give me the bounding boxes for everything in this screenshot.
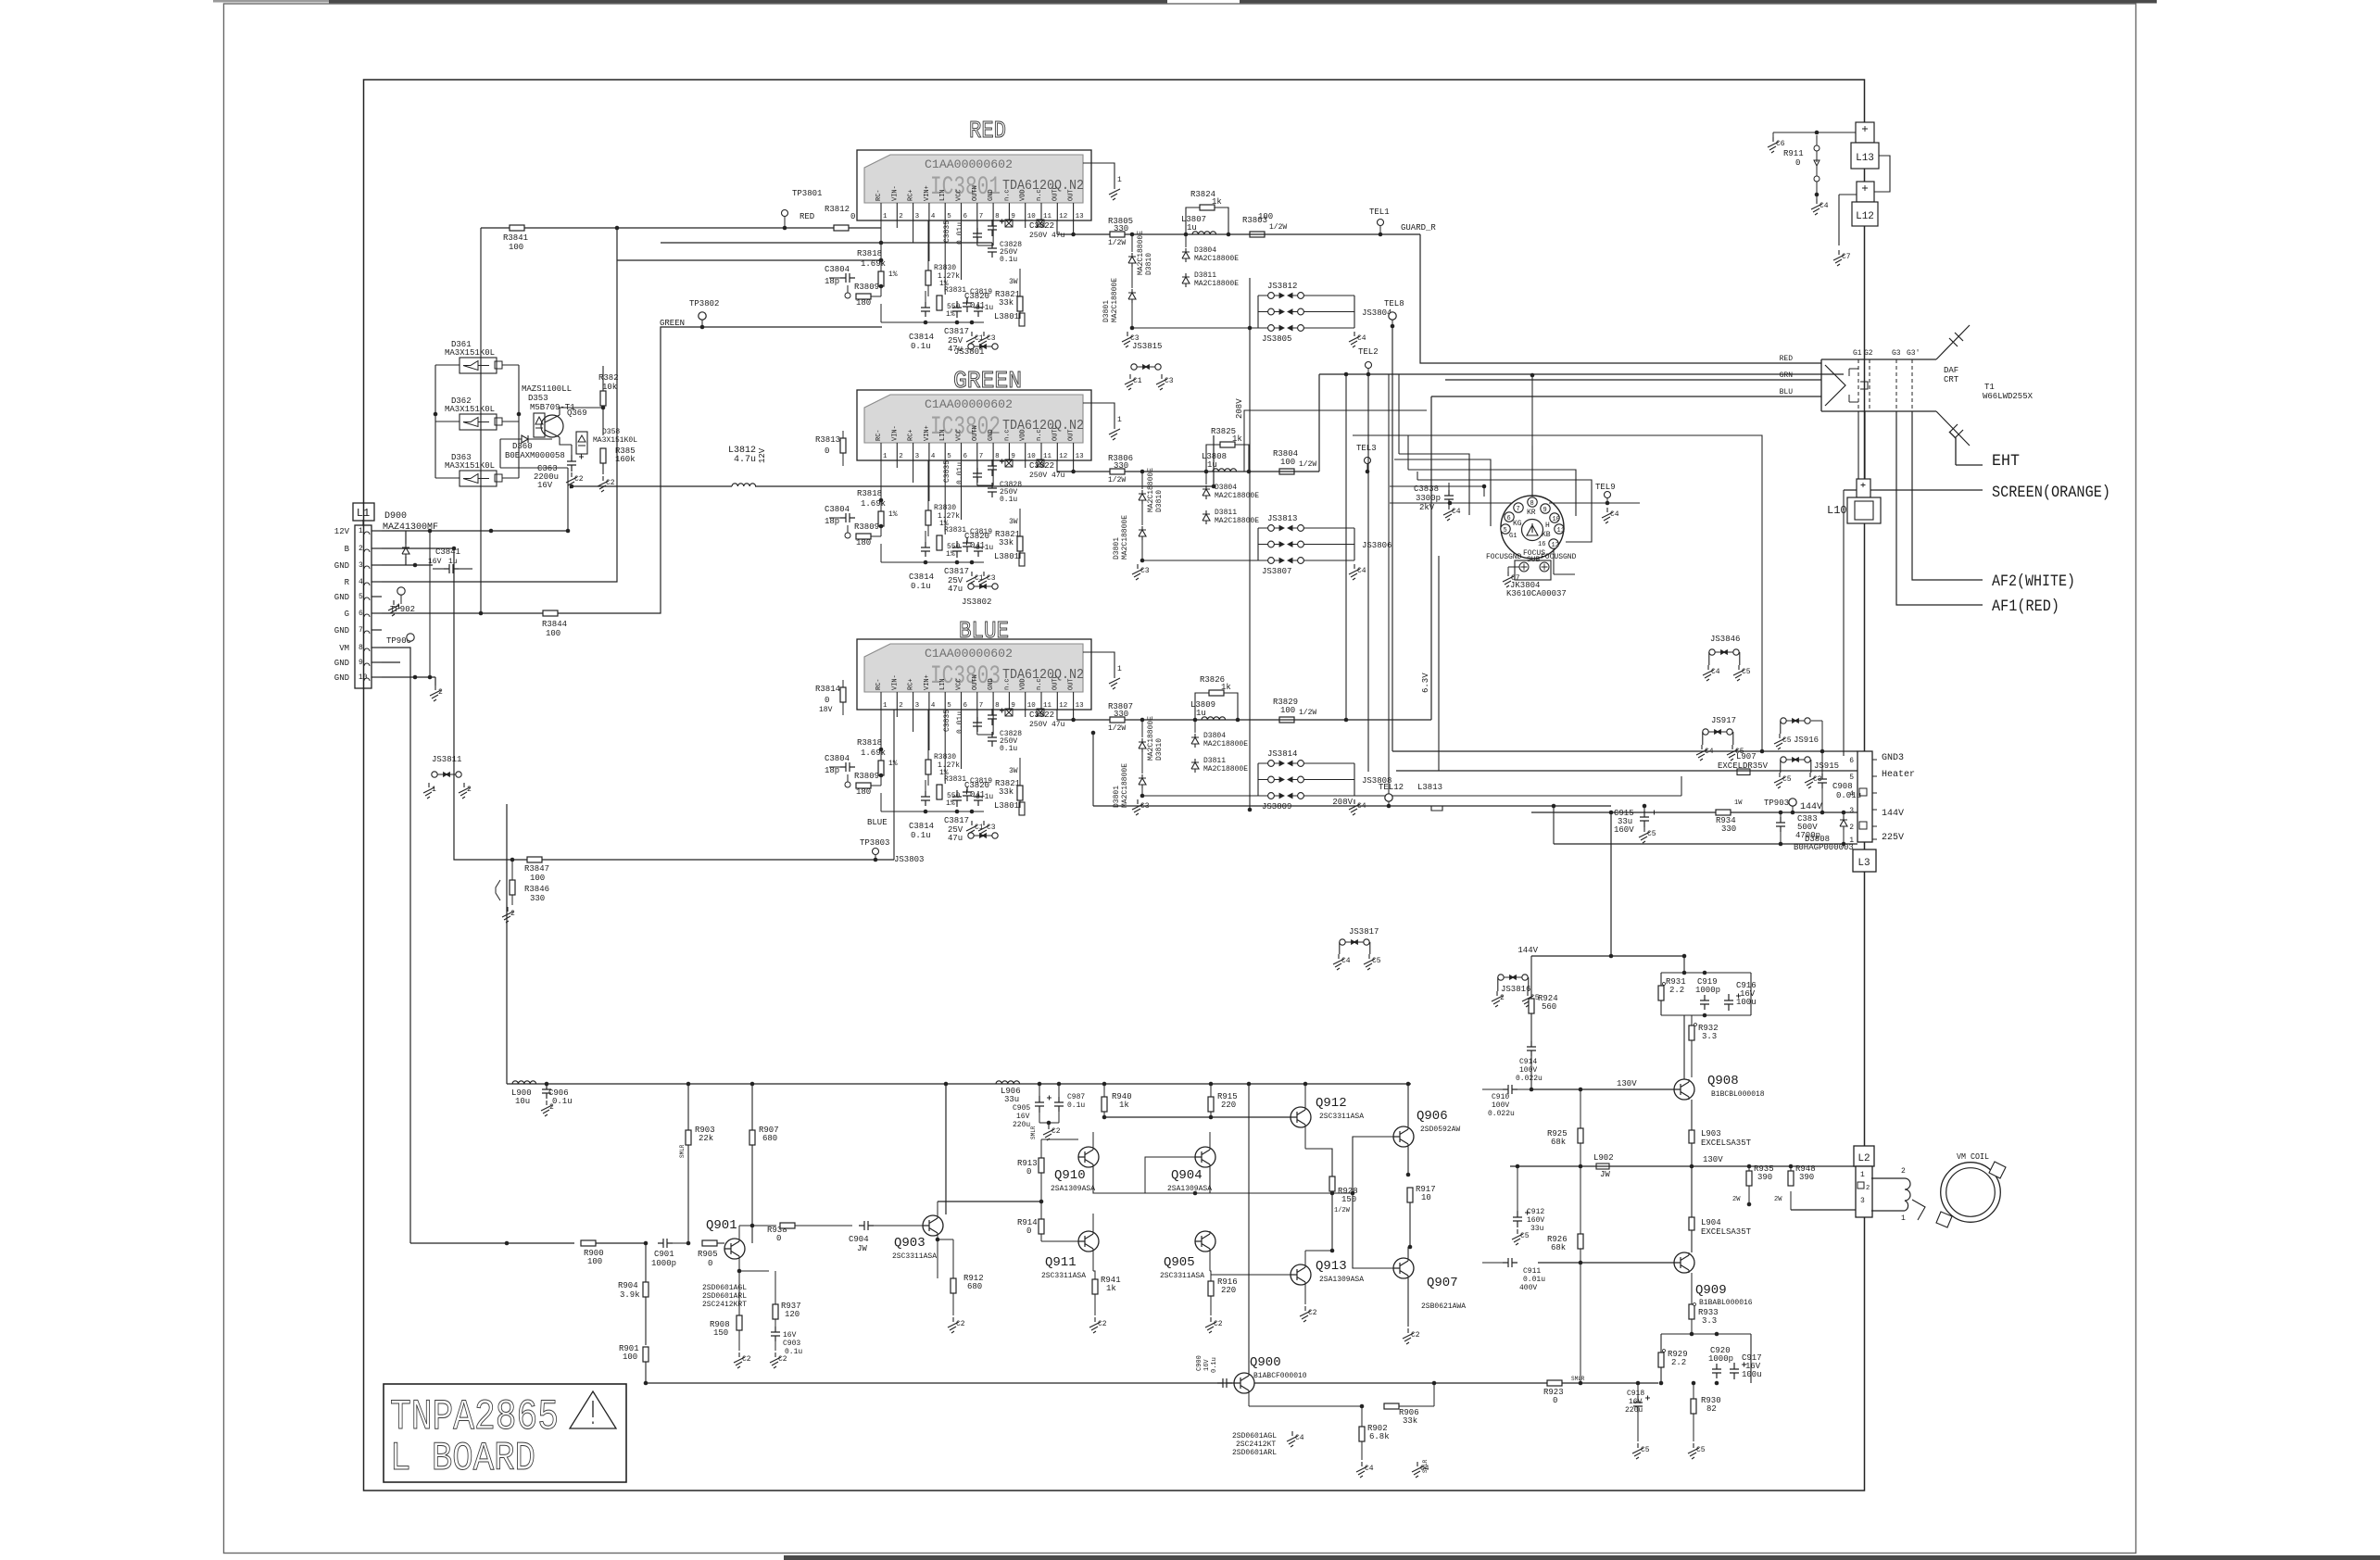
svg-text:BLUE: BLUE [867, 818, 888, 827]
jumper grid B [1268, 761, 1275, 767]
svg-text:C3820: C3820 [964, 781, 989, 790]
svg-text:2SD0592AW: 2SD0592AW [1420, 1126, 1460, 1134]
svg-text:33u: 33u [1004, 1095, 1019, 1104]
wire 144V vertical [1610, 806, 1612, 812]
svg-text:R911: R911 [1783, 149, 1804, 158]
svg-text:0.1u: 0.1u [1211, 1357, 1218, 1373]
capacitor C382x 47u R [988, 220, 997, 236]
inductor L12 [1857, 182, 1874, 202]
svg-text:D900: D900 [384, 511, 407, 522]
svg-text:0.01u: 0.01u [1523, 1276, 1545, 1284]
wire VM to bottom [382, 648, 410, 1243]
svg-text:330: 330 [1721, 824, 1736, 834]
svg-text:OUT: OUT [1068, 678, 1076, 690]
svg-text:G: G [345, 610, 349, 619]
svg-text:AF2(WHITE): AF2(WHITE) [1992, 572, 2075, 591]
CRT socket pin 11 [1555, 524, 1564, 534]
svg-text:1: 1 [1117, 416, 1122, 424]
wire Q908 base row [1531, 1088, 1674, 1090]
svg-text:3: 3 [359, 561, 363, 570]
svg-text:RC-: RC- [875, 189, 883, 201]
svg-text:GND: GND [334, 673, 349, 683]
wire bus left vert [506, 804, 508, 1084]
svg-text:VCC: VCC [956, 429, 963, 441]
wire Q903 collector [937, 1201, 938, 1215]
wire Q908 emitter [1691, 1099, 1693, 1101]
svg-text:250V 47u: 250V 47u [1029, 232, 1065, 240]
transistor Q903 [923, 1215, 943, 1236]
svg-text:3: 3 [1849, 807, 1854, 815]
svg-text:T1: T1 [1984, 383, 1995, 392]
wire output row G [1056, 460, 1058, 472]
svg-text:G3': G3' [1907, 349, 1920, 358]
wire Q912 base row [1104, 1116, 1291, 1118]
svg-text:C2: C2 [574, 475, 584, 484]
page border [224, 4, 2136, 1554]
svg-text:KB: KB [1542, 531, 1551, 539]
svg-text:C5: C5 [1647, 830, 1656, 838]
svg-text:Q911: Q911 [1045, 1255, 1077, 1270]
svg-text:TEL12: TEL12 [1379, 783, 1404, 792]
wire Q913 base row [1211, 1274, 1291, 1276]
ground L1 pin10 [430, 686, 441, 701]
svg-text:JS3815: JS3815 [1132, 342, 1162, 351]
svg-text:R3818: R3818 [857, 738, 882, 748]
wire socket pin8 up [1531, 446, 1533, 497]
ground C1 B [966, 821, 977, 837]
svg-text:10: 10 [359, 673, 368, 682]
svg-text:0: 0 [776, 1234, 781, 1243]
svg-text:OUTN: OUTN [972, 674, 979, 690]
svg-text:JS3816: JS3816 [1501, 985, 1530, 994]
svg-text:1/2W: 1/2W [1299, 709, 1316, 717]
wire Q913 collector [1304, 1251, 1306, 1264]
ground under R902 [1356, 1462, 1367, 1478]
svg-text:C900: C900 [1196, 1355, 1203, 1371]
label EHT [1949, 432, 1983, 465]
svg-text:H: H [1545, 522, 1550, 530]
svg-text:D3811: D3811 [1215, 509, 1237, 517]
scan artifact top edge [329, 0, 1167, 4]
svg-text:C2: C2 [1214, 1320, 1223, 1328]
svg-text:MA3X151K0L: MA3X151K0L [593, 436, 637, 445]
svg-text:G2: G2 [1864, 349, 1873, 358]
svg-text:n.c: n.c [1036, 429, 1043, 441]
svg-text:n.c: n.c [1003, 189, 1011, 201]
svg-text:2SC2412KRT: 2SC2412KRT [702, 1301, 747, 1309]
warning triangle [570, 1391, 616, 1428]
IC IC3803 body [864, 644, 1083, 692]
svg-text:0.1u: 0.1u [911, 342, 931, 351]
svg-text:9: 9 [359, 659, 363, 667]
svg-text:R905: R905 [698, 1250, 718, 1259]
svg-text:225V: 225V [1882, 833, 1904, 843]
wire Q903 top [945, 1084, 947, 1214]
connector L2 label box [1854, 1146, 1874, 1166]
svg-text:120: 120 [785, 1310, 800, 1319]
svg-text:C918: C918 [1627, 1390, 1644, 1398]
wire Q908 collector up [1683, 1015, 1685, 1079]
svg-text:2W: 2W [1732, 1196, 1741, 1203]
wire G1 down [1857, 411, 1859, 490]
svg-text:C1AA00000602: C1AA00000602 [925, 397, 1013, 411]
svg-text:2SC3311ASA: 2SC3311ASA [1319, 1113, 1364, 1121]
svg-text:OUTC: OUTC [1051, 425, 1059, 441]
ground under C918 [1632, 1443, 1643, 1459]
jumper grid R [1268, 293, 1275, 299]
svg-text:130V: 130V [1617, 1079, 1637, 1088]
svg-text:C4: C4 [1711, 668, 1720, 676]
svg-text:C3814: C3814 [909, 822, 934, 831]
CRT electrode dashes [1857, 359, 1859, 411]
svg-text:68k: 68k [1551, 1243, 1566, 1252]
svg-text:2: 2 [359, 545, 363, 553]
svg-text:JS916: JS916 [1794, 736, 1819, 745]
svg-text:KG: KG [1513, 520, 1522, 528]
wire G to green input [382, 612, 543, 614]
wire blue input [875, 859, 894, 861]
svg-text:SMLR: SMLR [1571, 1376, 1585, 1382]
svg-text:2.2: 2.2 [1669, 986, 1684, 995]
svg-text:6.3V: 6.3V [1421, 673, 1430, 693]
svg-text:4: 4 [931, 213, 936, 220]
transistor Q910 [1078, 1147, 1099, 1167]
svg-text:VIN+: VIN+ [924, 674, 931, 690]
transistor Q901 [724, 1239, 745, 1259]
svg-text:R3809: R3809 [854, 283, 879, 292]
svg-text:0: 0 [825, 447, 829, 456]
svg-text:250V 47u: 250V 47u [1029, 472, 1065, 480]
svg-text:5: 5 [947, 453, 951, 460]
VM coil winding [1871, 1178, 1910, 1211]
svg-text:2SA1309ASA: 2SA1309ASA [1319, 1276, 1364, 1284]
svg-text:R3812: R3812 [825, 205, 850, 214]
svg-text:BLU: BLU [1780, 388, 1794, 396]
svg-text:6: 6 [359, 610, 363, 618]
wire Q907 base [1353, 1193, 1393, 1268]
svg-text:JS3814: JS3814 [1267, 749, 1297, 759]
svg-text:0.1u: 0.1u [1000, 256, 1017, 264]
wire Q910/Q904 emitters [1093, 1167, 1210, 1193]
svg-text:C5: C5 [1641, 1446, 1650, 1454]
svg-text:L BOARD: L BOARD [390, 1436, 535, 1482]
svg-text:VCC: VCC [956, 678, 963, 690]
svg-text:160k: 160k [615, 455, 636, 464]
svg-text:3: 3 [915, 213, 920, 220]
svg-text:TEL9: TEL9 [1595, 483, 1616, 492]
svg-text:C911: C911 [1523, 1267, 1541, 1276]
wires socket left risers [1399, 374, 1417, 480]
wire C910 left [1408, 1089, 1482, 1126]
svg-text:GREEN: GREEN [953, 367, 1022, 395]
svg-text:0.01u: 0.01u [956, 462, 964, 484]
wire emitters to L2 row [1410, 1166, 1510, 1175]
svg-text:8: 8 [995, 213, 1000, 220]
svg-text:VIN+: VIN+ [924, 185, 931, 201]
svg-text:150: 150 [713, 1328, 728, 1338]
svg-text:0.022u: 0.022u [1488, 1110, 1515, 1118]
wire socket pin11 row [1417, 480, 1592, 542]
ground C1 R [966, 332, 977, 347]
svg-text:JS3802: JS3802 [962, 598, 991, 607]
wire Q901 collector [738, 1226, 740, 1241]
wire Q910 collector [1092, 1132, 1094, 1147]
wire Q911 emitter [1092, 1252, 1094, 1271]
pin x-boxes G [1005, 459, 1013, 467]
grounds under Q901 [734, 1352, 745, 1368]
svg-text:C3804: C3804 [825, 754, 850, 763]
jumper JS380x G [968, 584, 974, 589]
wire mid row [1041, 1192, 1078, 1194]
svg-text:C3817: C3817 [944, 327, 969, 336]
ground C7 [1833, 250, 1845, 266]
svg-text:16V: 16V [537, 481, 553, 490]
CRT socket pin 9 [1541, 504, 1550, 513]
svg-text:RC+: RC+ [908, 429, 915, 441]
ground under R916 [1205, 1317, 1216, 1333]
svg-text:0.1u: 0.1u [1000, 745, 1017, 753]
svg-text:2: 2 [899, 453, 903, 460]
wire Q903 emitter [937, 1236, 938, 1278]
svg-text:C3: C3 [1140, 567, 1150, 575]
svg-text:1W: 1W [1734, 799, 1743, 807]
wire Q905 base [1145, 1193, 1195, 1241]
svg-text:33u: 33u [1530, 1225, 1544, 1233]
svg-text:DAF: DAF [1944, 366, 1958, 375]
svg-text:TP903: TP903 [1764, 799, 1789, 808]
svg-text:2SC3311ASA: 2SC3311ASA [1041, 1272, 1086, 1280]
ground under C905 [1043, 1125, 1054, 1140]
wire vm input row [410, 1242, 574, 1244]
svg-text:2SD0601ARL: 2SD0601ARL [702, 1292, 747, 1301]
diode D381x column R [1130, 233, 1135, 237]
svg-text:MA2C18800E: MA2C18800E [1215, 517, 1259, 525]
wire socket pin5 row [1394, 459, 1491, 526]
capacitor C38xx 250V 0.1u R [988, 243, 997, 258]
wire TEL8 row [1391, 326, 1393, 751]
svg-text:G3: G3 [1892, 349, 1901, 358]
svg-text:5: 5 [947, 702, 951, 710]
svg-text:R3813: R3813 [815, 435, 840, 445]
CRT socket pin 5 [1501, 524, 1510, 534]
wire 12V rail verticals [500, 439, 568, 531]
svg-text:C4: C4 [1452, 508, 1461, 516]
capacitor C38xx 250V 0.1u G [988, 483, 997, 497]
svg-text:33k: 33k [999, 787, 1014, 797]
svg-text:2: 2 [899, 213, 903, 220]
svg-text:250V 47u: 250V 47u [1029, 721, 1065, 729]
ground C3 R [978, 332, 989, 347]
svg-text:1: 1 [432, 786, 436, 794]
svg-text:RED: RED [1780, 355, 1794, 363]
wire pin stubs B [896, 710, 898, 717]
inductor L900 [512, 1081, 536, 1084]
svg-text:2SD0601AGL: 2SD0601AGL [1232, 1432, 1277, 1440]
svg-text:MA2C18800E: MA2C18800E [1194, 255, 1239, 263]
svg-text:L3801: L3801 [994, 552, 1019, 561]
svg-text:13: 13 [1076, 702, 1085, 710]
wire 12V rail up [1213, 435, 1215, 486]
capacitor C6 gnd [1768, 137, 1779, 153]
svg-text:1/2W: 1/2W [1299, 460, 1316, 469]
svg-text:MA2C18800E: MA2C18800E [1121, 763, 1129, 808]
ground under R930 [1688, 1443, 1699, 1459]
svg-text:47u: 47u [948, 585, 963, 594]
wire R903 down [687, 1145, 689, 1243]
svg-text:C901: C901 [654, 1250, 674, 1259]
wire Q911 base [1077, 1240, 1079, 1242]
svg-text:18V: 18V [819, 706, 833, 714]
svg-text:5: 5 [1849, 774, 1854, 782]
svg-text:1/2W: 1/2W [1269, 223, 1287, 232]
svg-text:1: 1 [883, 453, 888, 460]
svg-text:C1AA00000602: C1AA00000602 [925, 157, 1013, 171]
svg-text:C4: C4 [1295, 1434, 1304, 1442]
svg-text:C910: C910 [1492, 1093, 1509, 1101]
svg-text:130V: 130V [1703, 1155, 1723, 1164]
wire L13 to L12 [1874, 156, 1890, 192]
wire blue 208V link [1092, 733, 1094, 806]
svg-text:144V: 144V [1517, 946, 1538, 955]
svg-text:16V: 16V [1203, 1359, 1211, 1371]
capacitor C382x 47u G [988, 459, 997, 476]
svg-text:1/2W: 1/2W [1108, 724, 1126, 733]
svg-text:0: 0 [1795, 158, 1800, 168]
wire Q906 collector [1407, 1084, 1409, 1126]
wire Q913 emitter [1304, 1285, 1306, 1304]
svg-text:VDD: VDD [1020, 429, 1027, 441]
wire Q907 emitter [1407, 1247, 1409, 1258]
wire Q900 emitter [1248, 1393, 1250, 1406]
diode D3811 G [1203, 510, 1210, 524]
wire Q909 down [1691, 1333, 1693, 1335]
diode D381x column B [1140, 718, 1145, 723]
svg-text:2: 2 [438, 688, 443, 697]
ground C1 G [966, 572, 977, 587]
svg-text:RED: RED [969, 117, 1006, 145]
svg-text:208V: 208V [1332, 798, 1353, 807]
svg-text:D3810: D3810 [1145, 253, 1153, 275]
svg-text:L3801: L3801 [994, 801, 1019, 811]
wire 144V row [1531, 811, 1857, 813]
svg-text:JS3804: JS3804 [1362, 308, 1391, 318]
svg-text:C4: C4 [1610, 510, 1619, 519]
svg-text:Q907: Q907 [1427, 1276, 1458, 1290]
svg-text:D3810: D3810 [1155, 738, 1164, 761]
transistor Q900 [1234, 1373, 1254, 1393]
capacitor C3819 B [963, 786, 972, 801]
svg-text:JS3803: JS3803 [894, 855, 924, 864]
wire R to red input [382, 228, 617, 582]
transistor Q906 [1393, 1126, 1414, 1147]
ground under Q907 [1403, 1328, 1414, 1344]
svg-text:10: 10 [1027, 702, 1037, 710]
svg-text:JS3809: JS3809 [1262, 802, 1291, 811]
svg-text:C3835: C3835 [943, 220, 951, 243]
svg-text:12: 12 [1552, 542, 1559, 549]
svg-text:16V: 16V [783, 1331, 797, 1340]
svg-text:4: 4 [931, 453, 936, 460]
wire socket pin12 down [1554, 549, 1575, 574]
svg-text:VCC: VCC [956, 189, 963, 201]
transistor Q912 [1291, 1107, 1311, 1127]
svg-text:D3804: D3804 [1194, 246, 1216, 255]
svg-text:12V: 12V [758, 447, 767, 463]
svg-text:L1: L1 [357, 507, 370, 520]
svg-text:B: B [345, 545, 350, 554]
wire GRN to gun [1445, 379, 1821, 381]
wire af wires vert [1780, 463, 1782, 490]
svg-text:220: 220 [1221, 1286, 1236, 1295]
wire Q908 collector [1683, 1015, 1685, 1079]
svg-text:0.1: 0.1 [970, 301, 985, 310]
svg-text:400V: 400V [1519, 1284, 1537, 1292]
svg-text:7: 7 [979, 453, 984, 460]
wire pin9 gnd [382, 661, 400, 663]
wire green out vert link [431, 228, 433, 565]
svg-text:7: 7 [979, 213, 984, 220]
svg-text:12: 12 [1059, 213, 1067, 220]
svg-text:2SD0601AGL: 2SD0601AGL [702, 1284, 747, 1292]
svg-text:100: 100 [509, 243, 523, 252]
svg-text:C2: C2 [1308, 1309, 1317, 1317]
title block box [384, 1384, 626, 1482]
wire output row B [1056, 710, 1058, 720]
svg-text:220u: 220u [1625, 1406, 1643, 1415]
svg-text:C3822: C3822 [1029, 461, 1054, 471]
svg-text:R3830: R3830 [934, 264, 956, 272]
svg-text:L904: L904 [1701, 1218, 1721, 1227]
svg-text:C3817: C3817 [944, 816, 969, 825]
jumper JS380x B [968, 833, 974, 838]
svg-text:TEL8: TEL8 [1384, 299, 1404, 308]
svg-text:10: 10 [1027, 453, 1037, 460]
diode D380x column2 R [1128, 289, 1136, 303]
transistor Q911 [1078, 1231, 1099, 1252]
svg-text:KR: KR [1527, 509, 1536, 517]
svg-text:MA2C18800E: MA2C18800E [1147, 716, 1155, 761]
svg-text:100: 100 [623, 1352, 637, 1362]
svg-text:C3835: C3835 [943, 710, 951, 732]
svg-text:C4: C4 [1341, 957, 1351, 965]
ground C3 B [978, 821, 989, 837]
svg-text:3.9k: 3.9k [620, 1290, 640, 1300]
wire output row R [1056, 220, 1058, 234]
svg-text:VIN-: VIN- [891, 425, 899, 441]
svg-text:33k: 33k [999, 538, 1014, 547]
svg-text:680: 680 [762, 1134, 777, 1143]
wire GND pin3 [382, 564, 433, 566]
svg-text:144V: 144V [1882, 809, 1904, 819]
CRT funnel flare [1936, 325, 1970, 446]
svg-text:12V: 12V [334, 527, 350, 536]
svg-text:R3847: R3847 [524, 864, 549, 874]
wire Q912 collector [1304, 1084, 1306, 1107]
svg-text:GREEN: GREEN [660, 319, 685, 328]
svg-text:2: 2 [1500, 994, 1505, 1002]
svg-text:JS915: JS915 [1814, 761, 1839, 771]
svg-text:220u: 220u [1013, 1121, 1030, 1129]
diode D380x column2 G [1139, 526, 1146, 540]
diode D381x column G [1140, 470, 1145, 474]
svg-text:L2: L2 [1857, 1153, 1870, 1164]
svg-text:GND: GND [988, 189, 995, 201]
svg-text:SMLR: SMLR [1422, 1459, 1429, 1473]
ground under R912 [948, 1317, 959, 1333]
wire mid 130V row [1510, 1165, 1856, 1167]
svg-text:MA3X151K0L: MA3X151K0L [445, 405, 495, 414]
wire socket pin10 row [1408, 470, 1576, 516]
